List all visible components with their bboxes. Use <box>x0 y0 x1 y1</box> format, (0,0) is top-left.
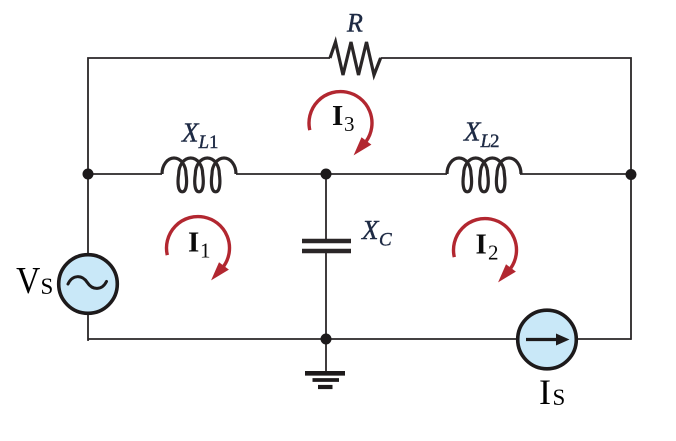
svg-text:L: L <box>198 132 210 153</box>
svg-text:X: X <box>463 117 482 147</box>
svg-text:C: C <box>379 230 392 251</box>
svg-text:S: S <box>41 274 54 299</box>
wire: center vertical upper (node to capacitor) <box>325 174 327 239</box>
label I2 <box>476 229 499 265</box>
wire: middle row, right of XL2 <box>520 173 631 175</box>
inductor XL1 <box>162 158 236 192</box>
wire: left rail lower <box>88 314 89 341</box>
label I3 <box>332 100 355 136</box>
svg-text:X: X <box>361 215 380 245</box>
ground <box>305 339 345 387</box>
mesh arrow I3 <box>309 92 372 156</box>
label VS <box>16 259 53 301</box>
svg-text:I: I <box>332 100 343 132</box>
wire: middle row, left of XL1 <box>88 173 162 175</box>
svg-text:2: 2 <box>488 241 499 265</box>
wire: middle row, center node to XL2 <box>326 173 447 175</box>
node A (left middle junction) <box>83 169 94 180</box>
svg-text:1: 1 <box>200 239 211 263</box>
resistor R <box>330 42 381 75</box>
mesh arrow I2 <box>453 219 516 283</box>
label I1 <box>188 227 211 263</box>
voltage source VS <box>59 255 118 314</box>
svg-text:2: 2 <box>490 131 500 152</box>
node B (center middle junction) <box>321 169 332 180</box>
capacitor XC <box>302 241 351 251</box>
current source IS <box>518 310 577 369</box>
wire: bottom right segment <box>576 338 632 340</box>
mesh arrow I1 <box>166 217 229 281</box>
inductor XL2 <box>447 158 521 192</box>
svg-text:V: V <box>16 259 40 301</box>
node C (right middle junction) <box>626 169 637 180</box>
wire: center vertical lower (capacitor to bottom) <box>325 253 327 339</box>
svg-text:X: X <box>181 118 200 148</box>
wire: top-right segment and right rail <box>381 58 631 340</box>
svg-text:1: 1 <box>209 132 219 153</box>
svg-text:S: S <box>553 385 566 410</box>
svg-text:I: I <box>476 229 487 261</box>
node D (bottom center junction) <box>321 334 332 345</box>
label XC <box>361 215 392 251</box>
svg-text:I: I <box>188 227 199 259</box>
wire: middle row, XL1 to center node <box>236 173 326 175</box>
wire: bottom left segment <box>88 338 519 340</box>
label IS <box>539 372 565 412</box>
svg-text:I: I <box>539 372 551 412</box>
label XL2 <box>463 117 500 153</box>
svg-text:R: R <box>346 9 363 38</box>
svg-text:3: 3 <box>344 112 355 136</box>
wire: left rail and top-left segment <box>88 58 330 255</box>
label XL1 <box>181 118 219 154</box>
